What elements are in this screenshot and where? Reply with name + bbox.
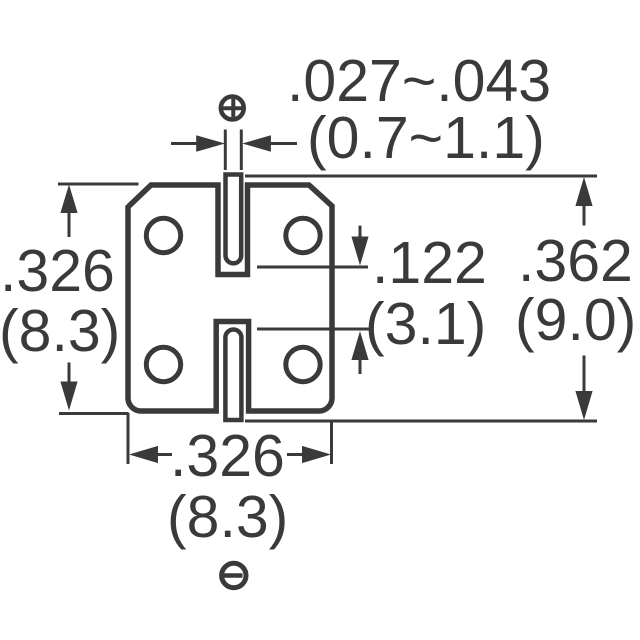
- svg-text:(8.3): (8.3): [0, 298, 120, 364]
- left dim down arrowhead: [60, 382, 77, 411]
- right dim up arrowhead: [575, 177, 592, 206]
- plus polarity symbol circle: [221, 97, 244, 120]
- top lead (anode terminal in slot): [226, 175, 242, 264]
- left dim line upper segment: [68, 212, 71, 237]
- right dim line upper segment: [583, 206, 586, 226]
- bottom dim right arrowhead (points right): [302, 446, 331, 463]
- svg-text:.362: .362: [518, 228, 633, 294]
- middle dim up-arrow line: [359, 360, 362, 374]
- middle dim down arrowhead: [351, 237, 368, 266]
- svg-text:.122: .122: [372, 230, 487, 296]
- svg-text:(0.7~1.1): (0.7~1.1): [307, 105, 545, 171]
- middle dim down-arrow line: [359, 226, 362, 238]
- minus bar: [224, 573, 243, 578]
- middle dim upper extension line: [257, 266, 368, 269]
- right dim line lower segment: [583, 356, 586, 393]
- middle dim lower extension line: [257, 328, 370, 331]
- hole top-left: [146, 218, 180, 252]
- left dim top extension line: [58, 183, 139, 186]
- left dim up arrowhead: [60, 185, 77, 214]
- svg-text:(9.0): (9.0): [515, 287, 636, 353]
- bottom dim left arrowhead (points left): [129, 446, 158, 463]
- right dim down arrowhead: [575, 391, 592, 420]
- lead-width extension line left: [224, 130, 227, 171]
- bottom dim left extension line: [127, 413, 130, 464]
- svg-text:.326: .326: [0, 238, 115, 304]
- middle dim up arrowhead: [351, 331, 368, 360]
- minus polarity symbol circle: [222, 563, 246, 587]
- plus cross: [223, 99, 242, 117]
- right dim bottom extension line: [245, 420, 597, 423]
- right dim top extension line: [245, 175, 597, 178]
- bottom dim tail right: [287, 453, 302, 456]
- hole bottom-left: [146, 347, 180, 381]
- capacitor body outline with top and bottom slots: [128, 185, 332, 411]
- lead-width extension line right: [240, 130, 243, 171]
- svg-text:.326: .326: [170, 423, 285, 489]
- bottom lead (cathode terminal in slot): [225, 330, 241, 421]
- lead-width arrowhead left (points right): [196, 135, 225, 151]
- bottom dim right extension line: [330, 421, 333, 464]
- left dim bottom extension line: [59, 412, 129, 415]
- lead-width dim tail left: [171, 142, 197, 145]
- svg-text:(3.1): (3.1): [365, 291, 486, 357]
- hole bottom-right: [286, 347, 320, 381]
- lead-width dim tail right: [270, 142, 297, 145]
- lead-width arrowhead right (points left): [242, 135, 271, 151]
- left dim line lower segment: [68, 363, 71, 386]
- svg-text:(8.3): (8.3): [167, 484, 288, 550]
- bottom dim tail left: [157, 453, 172, 456]
- hole top-right: [286, 218, 320, 252]
